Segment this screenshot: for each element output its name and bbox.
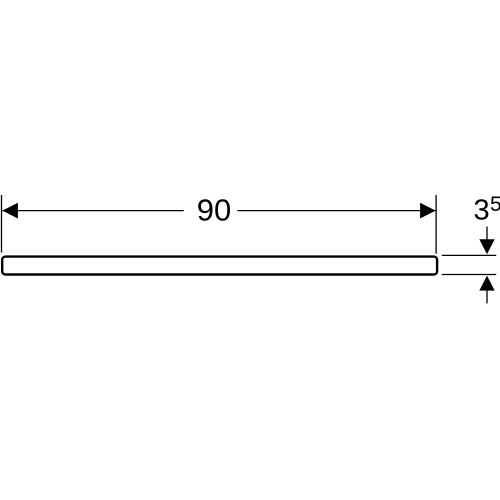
lower leader line (486, 290, 488, 303)
svg-text:3: 3 (474, 195, 490, 227)
right extension line (435, 195, 437, 254)
left extension line (1, 195, 3, 253)
down arrowhead (479, 239, 494, 254)
svg-text:90: 90 (197, 193, 231, 228)
dimension line right segment (237, 210, 435, 212)
top thickness line (442, 254, 496, 256)
dimension line left segment (2, 210, 183, 212)
right arrowhead (420, 203, 436, 219)
left arrowhead (2, 203, 18, 219)
panel profile (2, 257, 437, 275)
upper leader line (486, 227, 488, 241)
svg-text:5: 5 (490, 193, 500, 216)
up arrowhead (479, 276, 494, 291)
bottom thickness line (442, 274, 496, 276)
